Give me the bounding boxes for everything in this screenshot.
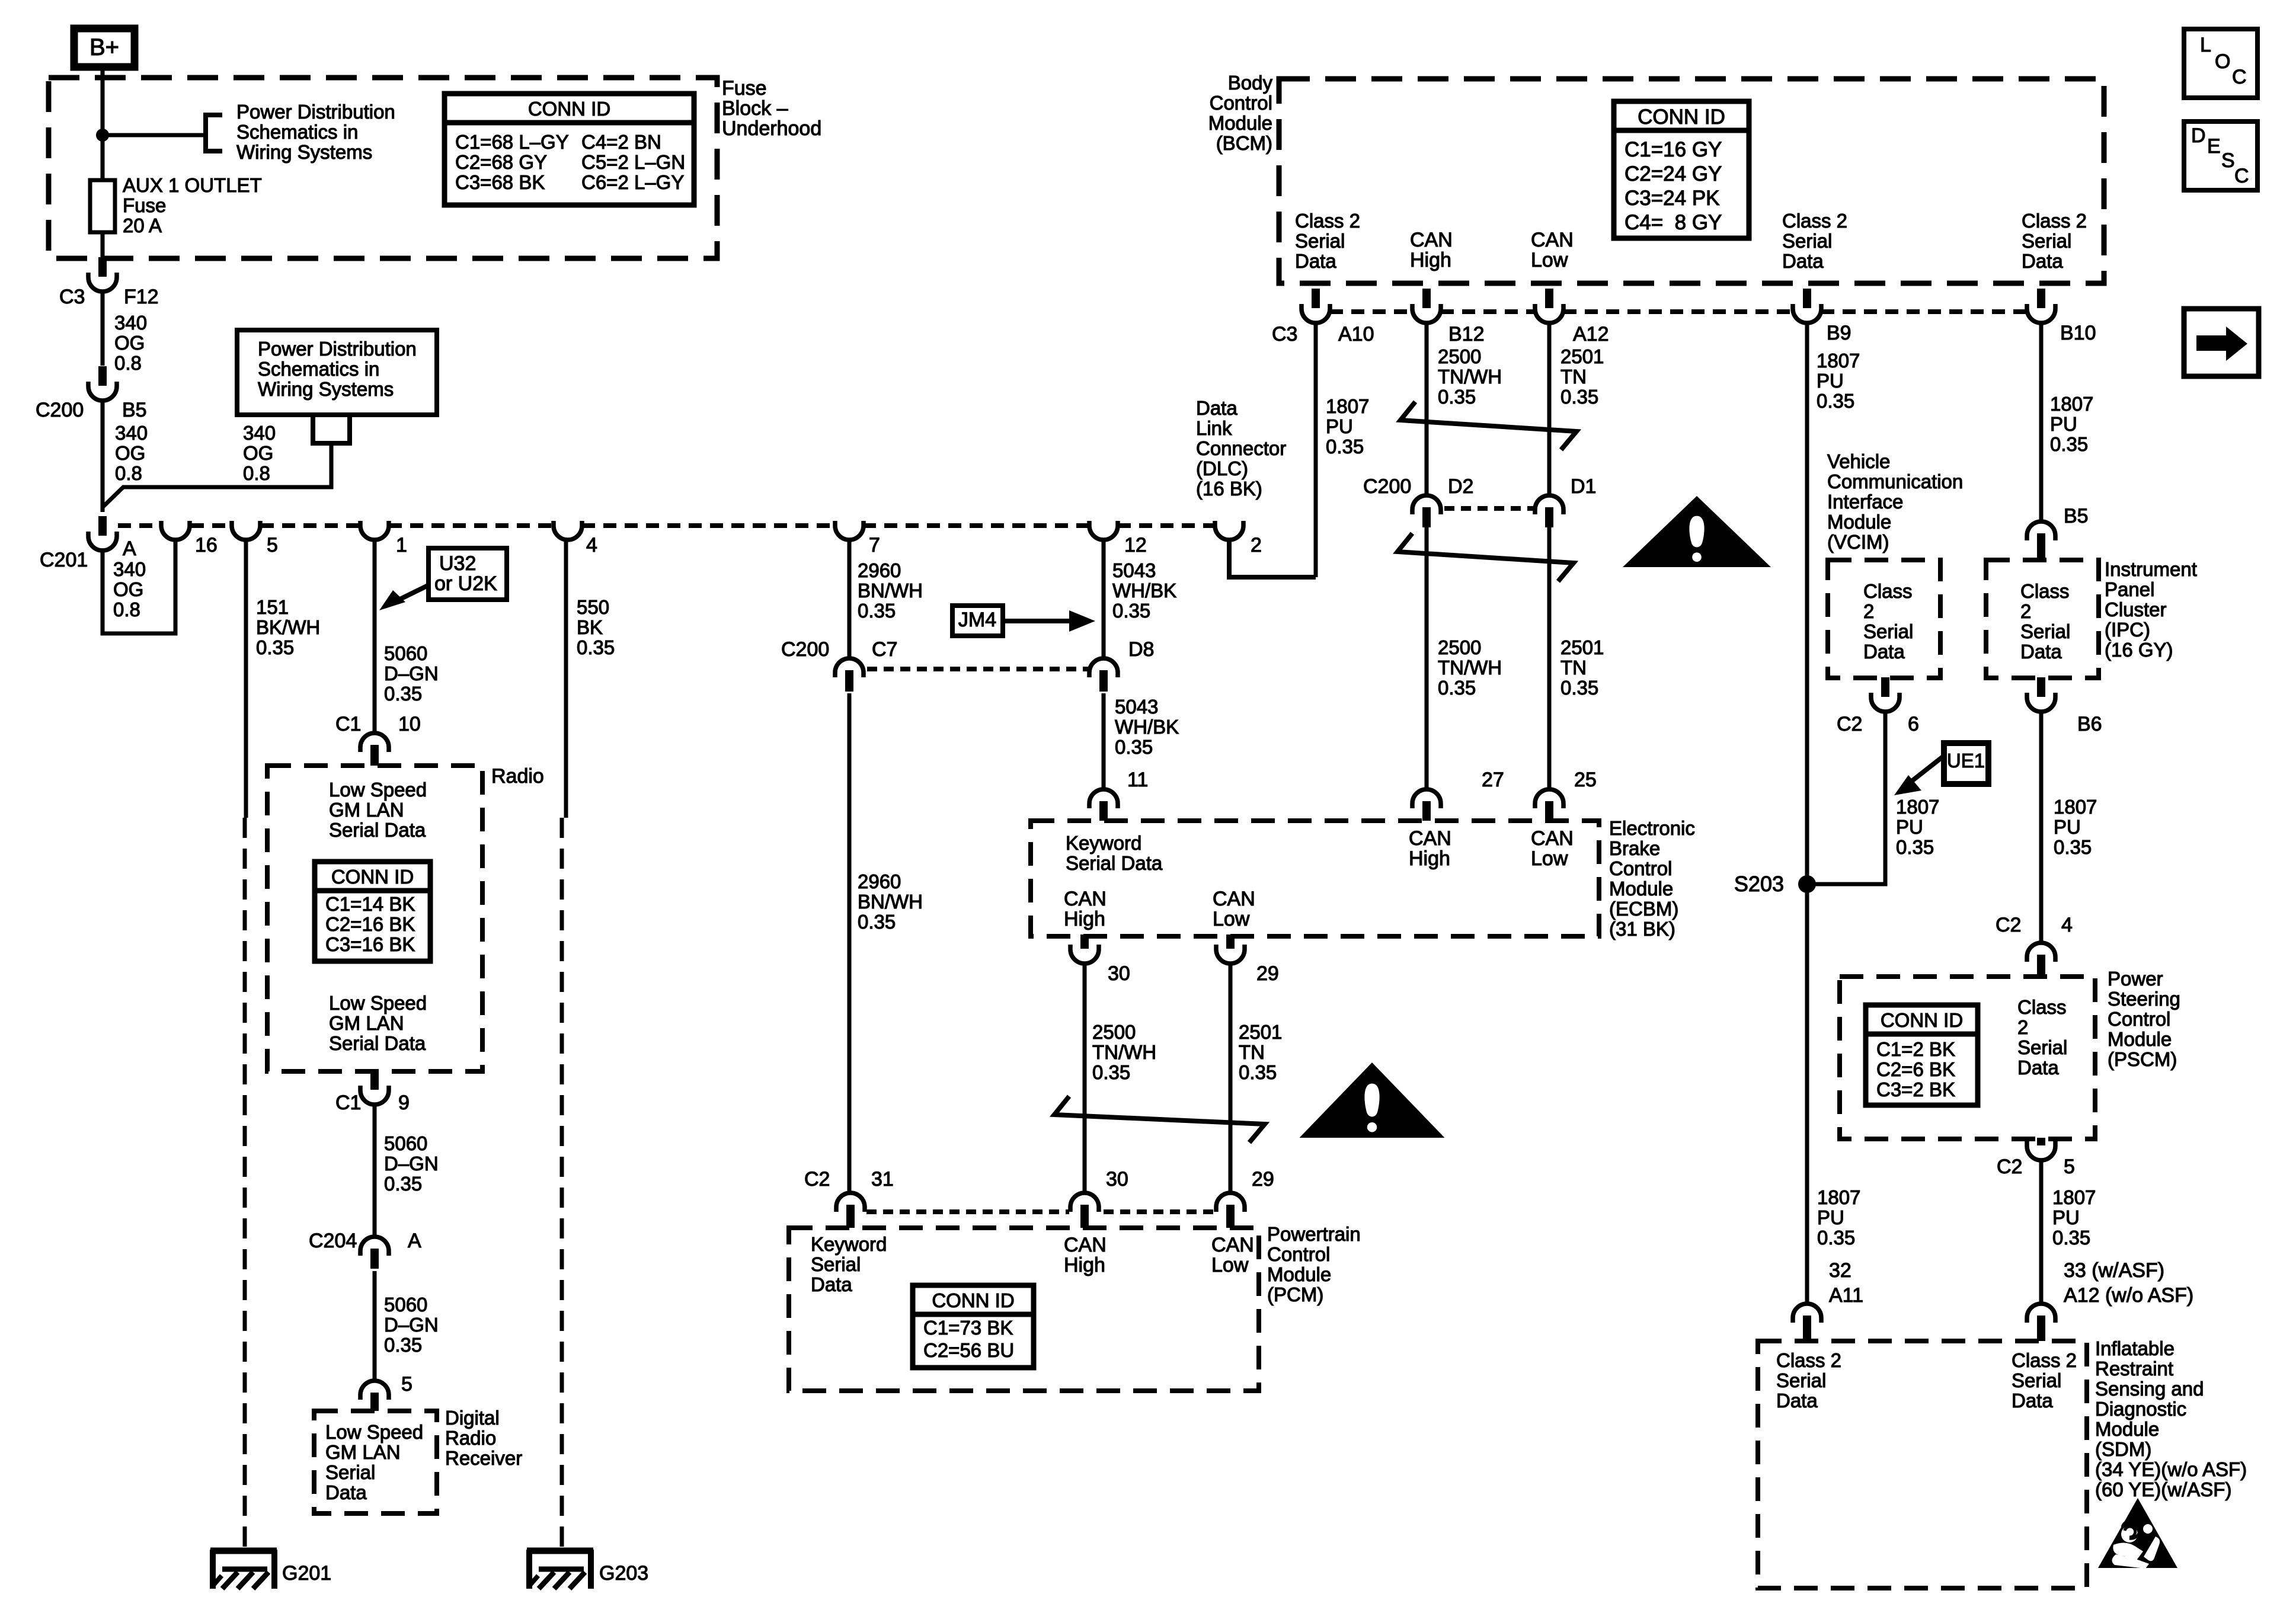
svg-text:Class: Class bbox=[2020, 580, 2070, 602]
svg-text:Steering: Steering bbox=[2108, 988, 2180, 1010]
svg-text:B+: B+ bbox=[89, 34, 119, 60]
svg-text:Link: Link bbox=[1196, 417, 1232, 439]
svg-text:CONN ID: CONN ID bbox=[1881, 1009, 1963, 1031]
svg-text:Low: Low bbox=[1531, 249, 1568, 271]
svg-text:Control: Control bbox=[1609, 857, 1672, 879]
connector PSCM C2 pin 5 bbox=[2037, 1138, 2045, 1145]
connector C200 pin B5 bbox=[98, 366, 107, 386]
svg-text:5060: 5060 bbox=[384, 1294, 427, 1316]
wire 151 BK/WH dashed run to G201 bbox=[243, 818, 247, 1551]
svg-text:C3=24 PK: C3=24 PK bbox=[1625, 187, 1720, 210]
svg-text:2960: 2960 bbox=[858, 870, 901, 892]
svg-text:C: C bbox=[2232, 66, 2247, 88]
svg-text:10: 10 bbox=[398, 713, 421, 735]
svg-text:G203: G203 bbox=[599, 1562, 648, 1585]
svg-text:1807: 1807 bbox=[2052, 1186, 2096, 1208]
svg-text:Cluster: Cluster bbox=[2105, 599, 2167, 620]
svg-text:Digital: Digital bbox=[445, 1407, 500, 1429]
svg-text:Data: Data bbox=[2017, 1057, 2059, 1078]
svg-text:0.35: 0.35 bbox=[1115, 736, 1153, 758]
svg-text:A12 (w/o ASF): A12 (w/o ASF) bbox=[2064, 1284, 2193, 1307]
connector BCM pin B9 bbox=[1803, 289, 1811, 308]
connector C204 pin A bbox=[360, 1237, 389, 1256]
connector SDM pin A12 bbox=[2027, 1304, 2055, 1323]
svg-text:C4= 8 GY: C4= 8 GY bbox=[1625, 211, 1722, 234]
svg-text:(34 YE)(w/o ASF): (34 YE)(w/o ASF) bbox=[2095, 1458, 2247, 1480]
svg-text:High: High bbox=[1064, 908, 1105, 930]
svg-text:B9: B9 bbox=[1827, 322, 1851, 344]
svg-text:1807: 1807 bbox=[1817, 1186, 1860, 1208]
svg-text:B5: B5 bbox=[122, 399, 147, 421]
svg-text:C2: C2 bbox=[804, 1168, 830, 1190]
svg-text:32: 32 bbox=[1829, 1259, 1851, 1282]
svg-text:C4=2 BN: C4=2 BN bbox=[581, 131, 661, 153]
svg-text:C: C bbox=[2234, 165, 2249, 187]
wire - D8 down to ECBM pin 11 bbox=[1102, 693, 1106, 789]
svg-text:B6: B6 bbox=[2077, 713, 2102, 735]
svg-text:Data: Data bbox=[2022, 250, 2063, 272]
svg-text:Data: Data bbox=[2020, 641, 2062, 663]
svg-text:1: 1 bbox=[396, 534, 407, 556]
svg-text:2: 2 bbox=[2017, 1016, 2028, 1038]
svg-text:S203: S203 bbox=[1734, 872, 1784, 896]
connector SDM pin A11 bbox=[1793, 1304, 1821, 1323]
svg-text:CAN: CAN bbox=[1211, 1234, 1254, 1256]
connector C201 pin 1 fork bbox=[360, 521, 389, 540]
wire - branch from reference box to main feed bbox=[102, 443, 331, 508]
svg-text:Serial: Serial bbox=[811, 1253, 861, 1275]
svg-text:0.35: 0.35 bbox=[1817, 390, 1854, 412]
svg-text:C1: C1 bbox=[335, 713, 361, 735]
svg-text:E: E bbox=[2207, 135, 2221, 158]
svg-text:C2=16 BK: C2=16 BK bbox=[325, 913, 415, 935]
svg-text:S: S bbox=[2221, 149, 2235, 172]
wire - BCM B9 down to S203 and SDM A11 bbox=[1805, 322, 1809, 1304]
svg-text:1807: 1807 bbox=[2054, 796, 2097, 818]
twisted pair symbol (PCM CAN wires) bbox=[1054, 1096, 1265, 1142]
svg-text:Serial Data: Serial Data bbox=[329, 1032, 426, 1054]
svg-text:Block –: Block – bbox=[722, 97, 788, 120]
wire 550 BK dashed run to G203 bbox=[560, 818, 564, 1551]
connector ECBM pin 11 bbox=[1089, 789, 1118, 808]
svg-text:2501: 2501 bbox=[1239, 1021, 1282, 1043]
svg-text:C200: C200 bbox=[781, 638, 829, 661]
svg-text:PU: PU bbox=[1326, 415, 1353, 437]
svg-text:GM LAN: GM LAN bbox=[329, 1012, 404, 1034]
wire - VCIM pin 6 down to S203 bbox=[1815, 711, 1885, 884]
svg-text:UE1: UE1 bbox=[1947, 750, 1985, 772]
svg-text:0.35: 0.35 bbox=[1560, 386, 1598, 408]
wire 151 BK/WH to ground (solid part) bbox=[244, 539, 248, 818]
svg-text:Class 2: Class 2 bbox=[2012, 1349, 2077, 1371]
svg-text:6: 6 bbox=[1908, 713, 1919, 735]
svg-text:Radio: Radio bbox=[445, 1427, 496, 1449]
svg-text:Schematics in: Schematics in bbox=[258, 358, 379, 380]
svg-text:Data: Data bbox=[325, 1481, 367, 1503]
svg-text:D–GN: D–GN bbox=[384, 1314, 439, 1336]
svg-text:Data: Data bbox=[811, 1273, 852, 1295]
svg-text:7: 7 bbox=[869, 534, 880, 556]
svg-text:0.35: 0.35 bbox=[1817, 1227, 1855, 1249]
svg-text:Serial: Serial bbox=[2020, 620, 2070, 642]
svg-text:Serial: Serial bbox=[2012, 1369, 2061, 1391]
svg-text:C2=24 GY: C2=24 GY bbox=[1625, 162, 1722, 185]
wire - junction to schematic pointer bracket bbox=[103, 133, 206, 137]
connector C201 pin 16 fork bbox=[161, 521, 190, 540]
svg-text:TN/WH: TN/WH bbox=[1092, 1041, 1156, 1063]
svg-text:2501: 2501 bbox=[1560, 345, 1604, 367]
svg-text:Serial Data: Serial Data bbox=[1066, 852, 1163, 874]
svg-text:CAN: CAN bbox=[1531, 827, 1574, 850]
svg-text:Keyword: Keyword bbox=[1066, 832, 1141, 854]
svg-text:Power Distribution: Power Distribution bbox=[236, 101, 395, 123]
svg-text:0.35: 0.35 bbox=[577, 636, 615, 658]
svg-text:0.8: 0.8 bbox=[113, 599, 140, 620]
svg-text:D–GN: D–GN bbox=[384, 663, 439, 684]
svg-text:BN/WH: BN/WH bbox=[858, 891, 923, 913]
wire - jumper C201 A to pin 16 bbox=[103, 539, 175, 633]
Power Steering Control Module dashed box bbox=[1840, 977, 2095, 1139]
connector C201 pin 5 fork bbox=[232, 521, 260, 540]
svg-text:Control: Control bbox=[2108, 1008, 2170, 1030]
Radio dashed box bbox=[267, 766, 482, 1071]
svg-text:1807: 1807 bbox=[1817, 350, 1860, 372]
connector C201 pin A bbox=[98, 516, 107, 536]
svg-text:AUX 1 OUTLET: AUX 1 OUTLET bbox=[123, 174, 262, 196]
svg-text:340: 340 bbox=[113, 558, 146, 580]
svg-text:Restraint: Restraint bbox=[2095, 1358, 2173, 1380]
svg-text:BK: BK bbox=[577, 616, 603, 638]
svg-text:Serial: Serial bbox=[1776, 1369, 1826, 1391]
svg-text:Electronic: Electronic bbox=[1609, 817, 1695, 839]
svg-text:Serial Data: Serial Data bbox=[329, 819, 426, 841]
svg-text:BN/WH: BN/WH bbox=[858, 580, 923, 601]
warning triangle note (PCM CAN) bbox=[1300, 1062, 1445, 1138]
svg-text:Wiring Systems: Wiring Systems bbox=[236, 141, 372, 163]
svg-text:29: 29 bbox=[1256, 962, 1279, 985]
svg-text:4: 4 bbox=[586, 534, 597, 556]
svg-text:OG: OG bbox=[243, 442, 273, 464]
svg-text:2: 2 bbox=[1863, 600, 1874, 622]
connector PCM C2 pin 31 bbox=[836, 1193, 865, 1212]
svg-text:PU: PU bbox=[1817, 370, 1844, 392]
svg-text:(VCIM): (VCIM) bbox=[1827, 531, 1889, 553]
svg-text:2500: 2500 bbox=[1438, 636, 1481, 658]
svg-text:Data: Data bbox=[1776, 1390, 1818, 1412]
svg-text:Data: Data bbox=[1295, 250, 1336, 272]
Inflatable Restraint SDM dashed box bbox=[1758, 1341, 2087, 1588]
Powertrain Control Module dashed box bbox=[789, 1228, 1259, 1391]
svg-text:JM4: JM4 bbox=[958, 609, 996, 631]
fuse F AUX 1 OUTLET 20 A bbox=[90, 180, 115, 232]
svg-text:Brake: Brake bbox=[1609, 837, 1660, 859]
svg-text:5: 5 bbox=[267, 534, 278, 556]
junction node on B+ feed bbox=[96, 129, 109, 142]
svg-text:16: 16 bbox=[195, 534, 218, 556]
svg-text:B10: B10 bbox=[2060, 322, 2096, 344]
svg-text:29: 29 bbox=[1252, 1168, 1274, 1190]
svg-text:CONN ID: CONN ID bbox=[528, 98, 610, 120]
svg-text:WH/BK: WH/BK bbox=[1112, 580, 1176, 601]
svg-text:1807: 1807 bbox=[2050, 393, 2093, 415]
svg-text:U32: U32 bbox=[439, 552, 476, 575]
LOC reference box bbox=[2184, 29, 2257, 98]
svg-text:A10: A10 bbox=[1338, 323, 1374, 345]
svg-text:5: 5 bbox=[401, 1373, 412, 1396]
svg-text:Low Speed: Low Speed bbox=[325, 1421, 423, 1443]
connector ECBM pin 27 bbox=[1412, 789, 1441, 808]
connector BCM pin A12 bbox=[1545, 289, 1553, 308]
svg-text:C3=2 BK: C3=2 BK bbox=[1876, 1078, 1955, 1100]
connector ECBM CAN Low out bbox=[1226, 934, 1235, 949]
svg-text:0.35: 0.35 bbox=[2052, 1227, 2090, 1249]
svg-text:CAN: CAN bbox=[1410, 229, 1453, 251]
svg-text:PU: PU bbox=[1817, 1206, 1844, 1228]
Instrument Panel Cluster dashed box bbox=[1986, 560, 2099, 678]
svg-text:Underhood: Underhood bbox=[722, 117, 821, 140]
svg-text:C1=14 BK: C1=14 BK bbox=[325, 893, 415, 915]
connector PCM pin 30 bbox=[1070, 1193, 1099, 1212]
svg-text:Module: Module bbox=[2108, 1028, 2172, 1050]
VCIM Class 2 Serial Data dashed box bbox=[1828, 560, 1940, 678]
svg-text:340: 340 bbox=[243, 422, 276, 444]
connector IPC pin B5 bbox=[2027, 521, 2055, 540]
CONN ID table - radio bbox=[315, 862, 430, 961]
svg-text:A12: A12 bbox=[1573, 323, 1609, 345]
svg-text:Serial: Serial bbox=[1782, 230, 1832, 252]
UE1 callout box with arrow bbox=[1944, 743, 1988, 784]
svg-text:0.35: 0.35 bbox=[1896, 836, 1934, 858]
Electronic Brake Control Module dashed box bbox=[1031, 821, 1599, 936]
svg-text:Low Speed: Low Speed bbox=[329, 779, 427, 801]
svg-text:F12: F12 bbox=[124, 286, 159, 308]
svg-text:C3: C3 bbox=[59, 286, 85, 308]
svg-text:Vehicle: Vehicle bbox=[1827, 450, 1890, 472]
svg-text:C1=73 BK: C1=73 BK bbox=[923, 1317, 1013, 1339]
connector C200 pin D2 bbox=[1412, 495, 1441, 514]
svg-text:Module: Module bbox=[1267, 1263, 1331, 1285]
svg-text:Low: Low bbox=[1213, 908, 1250, 930]
svg-text:27: 27 bbox=[1482, 769, 1504, 791]
svg-text:TN: TN bbox=[1560, 657, 1587, 679]
svg-text:B5: B5 bbox=[2064, 505, 2089, 527]
connector C1 pin 10 (radio) bbox=[360, 733, 389, 752]
svg-text:Low: Low bbox=[1211, 1254, 1249, 1276]
svg-text:25: 25 bbox=[1574, 769, 1597, 791]
svg-text:30: 30 bbox=[1106, 1168, 1128, 1190]
reference box - Power Distribution Schematics in Wiring Systems bbox=[237, 330, 437, 415]
svg-text:CONN ID: CONN ID bbox=[932, 1289, 1014, 1311]
svg-text:D–GN: D–GN bbox=[384, 1153, 439, 1174]
svg-text:0.35: 0.35 bbox=[384, 683, 422, 705]
svg-text:340: 340 bbox=[115, 422, 148, 444]
svg-text:Serial: Serial bbox=[1863, 620, 1913, 642]
CONN ID table - fuse block bbox=[445, 94, 694, 205]
CONN ID table - PCM bbox=[913, 1285, 1034, 1368]
ground G201 bbox=[210, 1548, 277, 1554]
svg-text:Data: Data bbox=[1863, 641, 1905, 663]
ground G203 bbox=[527, 1548, 593, 1554]
svg-text:5043: 5043 bbox=[1112, 559, 1156, 581]
svg-text:Interface: Interface bbox=[1827, 491, 1903, 513]
svg-text:TN: TN bbox=[1239, 1041, 1265, 1063]
warning triangle note (BCM CAN) bbox=[1623, 496, 1771, 567]
svg-text:C3=68 BK: C3=68 BK bbox=[455, 171, 545, 193]
svg-text:2960: 2960 bbox=[858, 559, 901, 581]
svg-text:(16 GY): (16 GY) bbox=[2105, 639, 2173, 661]
svg-text:Module: Module bbox=[1609, 878, 1673, 900]
svg-text:2500: 2500 bbox=[1092, 1021, 1136, 1043]
svg-text:Keyword: Keyword bbox=[811, 1233, 887, 1255]
CONN ID table - BCM bbox=[1614, 101, 1749, 238]
svg-text:0.35: 0.35 bbox=[1560, 677, 1598, 699]
svg-text:PU: PU bbox=[1896, 816, 1923, 838]
twisted pair symbol (BCM CAN wires lower) bbox=[1398, 533, 1574, 581]
svg-text:OG: OG bbox=[113, 578, 143, 600]
connector C201 pin 7 fork bbox=[835, 521, 864, 540]
svg-text:0.35: 0.35 bbox=[1112, 600, 1150, 622]
svg-text:Control: Control bbox=[1210, 92, 1272, 114]
CONN ID table - PSCM bbox=[1866, 1005, 1978, 1105]
svg-text:0.35: 0.35 bbox=[384, 1334, 422, 1356]
svg-text:Inflatable: Inflatable bbox=[2095, 1337, 2175, 1359]
svg-text:(ECBM): (ECBM) bbox=[1609, 898, 1678, 920]
svg-text:Serial: Serial bbox=[325, 1461, 375, 1483]
bracket under reference box bbox=[311, 415, 352, 443]
svg-text:A: A bbox=[123, 537, 136, 560]
svg-text:30: 30 bbox=[1108, 962, 1130, 985]
svg-text:(BCM): (BCM) bbox=[1216, 132, 1272, 154]
svg-text:Wiring Systems: Wiring Systems bbox=[258, 378, 394, 400]
svg-text:Class 2: Class 2 bbox=[1295, 210, 1360, 232]
svg-text:C201: C201 bbox=[40, 549, 88, 571]
Digital Radio Receiver dashed box bbox=[314, 1411, 437, 1513]
svg-text:(IPC): (IPC) bbox=[2105, 619, 2150, 641]
svg-text:C6=2 L–GY: C6=2 L–GY bbox=[581, 171, 684, 193]
svg-text:0.35: 0.35 bbox=[256, 636, 294, 658]
connector BCM pin B10 bbox=[2037, 289, 2045, 308]
JM4 callout box with arrow bbox=[952, 606, 1003, 636]
wire 550 BK to ground (solid part) bbox=[564, 539, 568, 818]
svg-text:C5=2 L–GN: C5=2 L–GN bbox=[581, 151, 685, 173]
svg-text:1807: 1807 bbox=[1326, 395, 1369, 417]
svg-text:Low: Low bbox=[1531, 847, 1568, 870]
svg-text:Diagnostic: Diagnostic bbox=[2095, 1398, 2186, 1420]
wire - BCM B10 down to IPC B5 bbox=[2039, 322, 2044, 521]
svg-text:C2: C2 bbox=[1996, 914, 2021, 936]
connector PCM pin 29 bbox=[1216, 1193, 1245, 1212]
svg-text:Connector: Connector bbox=[1196, 437, 1286, 459]
dotted bus line C201 (instrument panel harness) bbox=[118, 523, 162, 528]
wire - DLC pin 2 to BCM A10 wire bbox=[1229, 539, 1316, 577]
svg-text:1807: 1807 bbox=[1896, 796, 1939, 818]
svg-text:2501: 2501 bbox=[1560, 636, 1604, 658]
svg-text:Sensing and: Sensing and bbox=[2095, 1378, 2204, 1400]
svg-text:OG: OG bbox=[115, 442, 145, 464]
connector PSCM C2 pin 4 bbox=[2027, 943, 2055, 962]
airbag caution triangle bbox=[2098, 1498, 2177, 1568]
svg-text:31: 31 bbox=[871, 1168, 894, 1190]
connector line C200 (C7 to D8) bbox=[867, 667, 1088, 671]
connector line C2 (PCM) bbox=[866, 1209, 1069, 1214]
svg-text:GM LAN: GM LAN bbox=[329, 799, 404, 821]
svg-text:Data: Data bbox=[1196, 397, 1237, 419]
svg-text:(31 BK): (31 BK) bbox=[1609, 918, 1675, 940]
svg-text:5060: 5060 bbox=[384, 642, 427, 664]
Body Control Module dashed box bbox=[1279, 79, 2104, 283]
connector C201 pin 12 fork bbox=[1089, 521, 1118, 540]
svg-text:0.35: 0.35 bbox=[1438, 386, 1476, 408]
svg-text:2: 2 bbox=[2020, 600, 2031, 622]
svg-text:0.8: 0.8 bbox=[243, 462, 270, 484]
svg-text:TN/WH: TN/WH bbox=[1438, 366, 1502, 388]
svg-text:B12: B12 bbox=[1448, 323, 1485, 345]
svg-text:D2: D2 bbox=[1448, 475, 1473, 498]
svg-text:C1=2 BK: C1=2 BK bbox=[1876, 1038, 1955, 1060]
wire - C7 down to PCM bbox=[848, 693, 852, 1193]
svg-text:CAN: CAN bbox=[1064, 888, 1107, 910]
RPO callout box U32 or U2K bbox=[428, 548, 507, 600]
connector C201 pin 2 fork bbox=[1215, 521, 1243, 540]
svg-text:Class 2: Class 2 bbox=[2022, 210, 2087, 232]
svg-text:0.35: 0.35 bbox=[1438, 677, 1476, 699]
dotted connector line below BCM bbox=[1330, 309, 1412, 314]
svg-text:WH/BK: WH/BK bbox=[1115, 716, 1179, 738]
svg-text:0.35: 0.35 bbox=[858, 911, 896, 933]
connector line C200 (D2 to D1) bbox=[1444, 506, 1534, 511]
svg-text:C1=68 L–GY: C1=68 L–GY bbox=[455, 131, 569, 153]
svg-text:OG: OG bbox=[114, 332, 145, 354]
svg-text:Panel: Panel bbox=[2105, 578, 2154, 600]
connector C200 pin C7 bbox=[835, 658, 864, 677]
svg-text:Communication: Communication bbox=[1827, 471, 1963, 492]
svg-text:0.8: 0.8 bbox=[115, 462, 142, 484]
next-page arrow box bbox=[2184, 309, 2259, 376]
connector pin 5 (digital radio receiver) bbox=[360, 1381, 389, 1400]
svg-text:CAN: CAN bbox=[1064, 1234, 1107, 1256]
pointer bracket - Power Distribution Schematics in Wiring Systems bbox=[206, 115, 222, 151]
svg-text:4: 4 bbox=[2061, 914, 2073, 936]
svg-text:Serial: Serial bbox=[2017, 1036, 2067, 1058]
connector BCM pin B12 bbox=[1422, 289, 1431, 308]
svg-text:151: 151 bbox=[256, 596, 289, 618]
svg-text:12: 12 bbox=[1124, 534, 1147, 556]
svg-text:Module: Module bbox=[2095, 1418, 2159, 1440]
svg-text:2: 2 bbox=[1251, 534, 1262, 556]
connector ECBM CAN High out bbox=[1080, 934, 1089, 949]
svg-text:Power: Power bbox=[2108, 968, 2163, 990]
svg-text:5043: 5043 bbox=[1115, 696, 1158, 718]
connector ECBM pin 25 bbox=[1535, 789, 1563, 808]
svg-text:PU: PU bbox=[2050, 413, 2077, 435]
svg-text:TN: TN bbox=[1560, 366, 1587, 388]
svg-text:C2: C2 bbox=[1837, 713, 1862, 735]
svg-text:C1=16 GY: C1=16 GY bbox=[1625, 138, 1722, 161]
svg-text:Receiver: Receiver bbox=[445, 1447, 522, 1469]
svg-text:Schematics in: Schematics in bbox=[236, 121, 358, 143]
svg-text:C2=6 BK: C2=6 BK bbox=[1876, 1058, 1955, 1080]
svg-text:A11: A11 bbox=[1829, 1284, 1863, 1307]
svg-text:Module: Module bbox=[1208, 112, 1272, 134]
svg-text:C1: C1 bbox=[335, 1092, 361, 1114]
svg-text:C2: C2 bbox=[1997, 1156, 2022, 1178]
connector C200 pin D1 bbox=[1535, 495, 1563, 514]
svg-text:0.35: 0.35 bbox=[2054, 836, 2092, 858]
svg-text:High: High bbox=[1410, 249, 1451, 271]
svg-text:Fuse: Fuse bbox=[722, 77, 767, 100]
svg-text:(DLC): (DLC) bbox=[1196, 457, 1248, 479]
svg-text:Class 2: Class 2 bbox=[1776, 1349, 1841, 1371]
